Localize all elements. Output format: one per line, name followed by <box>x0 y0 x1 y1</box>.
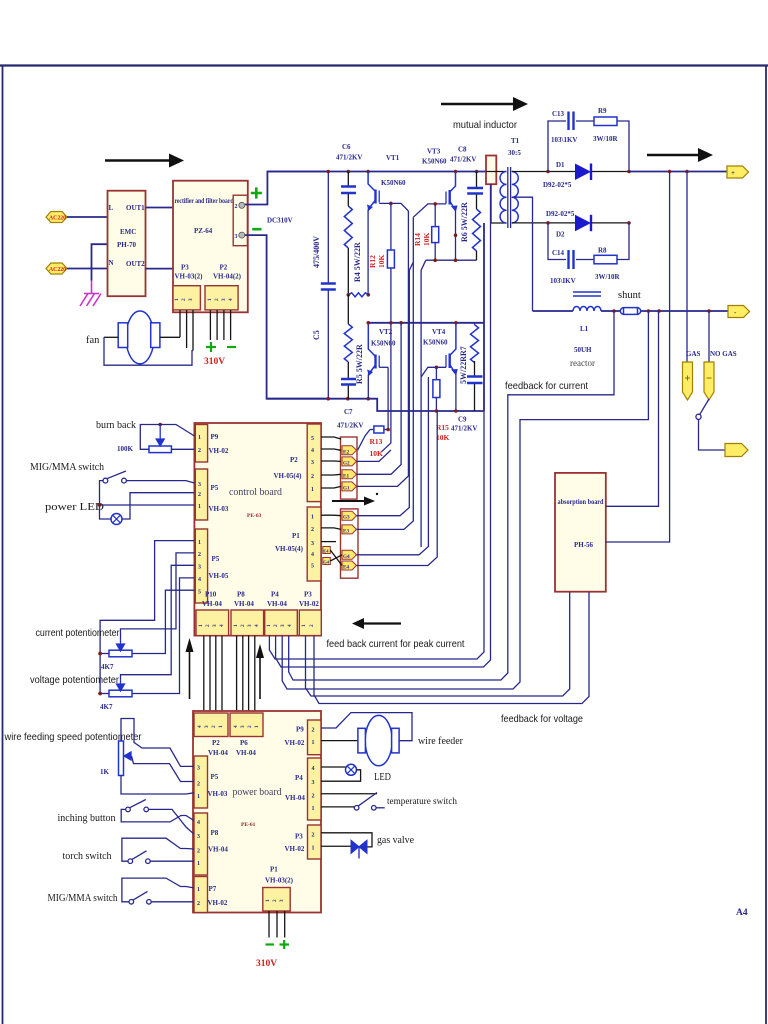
svg-text:C9: C9 <box>458 416 467 424</box>
svg-text:rectifier and filter board: rectifier and filter board <box>175 197 234 205</box>
wire burn back top <box>140 425 194 450</box>
svg-text:1: 1 <box>312 806 315 812</box>
wire P5b pin1 to pots rail <box>100 541 194 694</box>
svg-text:3: 3 <box>212 624 218 627</box>
node dots on rails <box>327 170 331 174</box>
svg-text:VT1: VT1 <box>386 154 400 162</box>
connector P5 VH-05 of control board <box>195 529 207 603</box>
svg-text:P3: P3 <box>181 264 189 272</box>
svg-text:E4: E4 <box>323 549 329 554</box>
arrow gate drive <box>332 497 375 506</box>
pin circle P1-2 <box>239 202 245 208</box>
svg-text:R8: R8 <box>598 247 607 255</box>
svg-text:1: 1 <box>312 740 315 746</box>
transistor VT1 <box>367 172 409 212</box>
capacitor C8 <box>476 172 478 210</box>
svg-text:4: 4 <box>197 820 200 826</box>
wire G4 riser <box>357 377 429 555</box>
wire feedback from minus sense <box>282 311 648 689</box>
pin circle P1-3 <box>239 232 245 238</box>
svg-text:4: 4 <box>254 624 260 627</box>
svg-text:1: 1 <box>254 725 260 728</box>
svg-text:VH-04: VH-04 <box>285 794 305 802</box>
control board PE-63 <box>194 423 321 636</box>
svg-text:GAS: GAS <box>686 350 701 358</box>
absorption board PH-56 <box>555 473 606 592</box>
svg-text:VH-04: VH-04 <box>236 749 256 757</box>
transistor VT4 <box>421 323 458 377</box>
svg-text:P9: P9 <box>211 433 219 441</box>
ground chassis symbol <box>80 281 101 307</box>
fan motor symbol <box>118 311 160 364</box>
LED indicator symbol <box>100 505 112 519</box>
flag gas out <box>725 444 748 457</box>
wire P5b pin5 to current pot right <box>132 590 194 653</box>
svg-text:475/400V: 475/400V <box>312 236 321 268</box>
wire earth branch <box>92 244 108 280</box>
wire to GAS flag <box>686 172 688 363</box>
svg-text:VH-04: VH-04 <box>267 600 287 608</box>
frame right border <box>765 66 767 1024</box>
transistor VT2 <box>367 323 388 376</box>
connector P3 of power board <box>308 825 322 859</box>
wire E3 riser <box>357 217 414 529</box>
svg-text:1: 1 <box>207 298 213 301</box>
svg-text:3W/10R: 3W/10R <box>593 135 618 143</box>
svg-text:D92-02*5: D92-02*5 <box>546 210 575 218</box>
svg-text:P10: P10 <box>205 591 217 599</box>
svg-text:P4: P4 <box>295 774 303 782</box>
svg-text:PE-63: PE-63 <box>247 513 262 519</box>
wire burn back right <box>171 448 194 450</box>
wire secondary top tap <box>512 171 548 173</box>
svg-text:+: + <box>731 169 735 177</box>
svg-text:2: 2 <box>312 833 315 839</box>
svg-text:3: 3 <box>311 460 314 466</box>
svg-text:VH-04(2): VH-04(2) <box>213 273 242 281</box>
svg-text:VH-02: VH-02 <box>285 845 305 853</box>
flags group G3 E3 G4 E4 <box>341 509 359 578</box>
wire G1 riser <box>357 211 409 486</box>
svg-text:2: 2 <box>272 899 278 902</box>
wires P10 pins down to power board <box>204 636 222 713</box>
wire secondary bottom tap <box>512 222 548 224</box>
wire feeder motor loop top <box>321 713 412 741</box>
svg-text:EMC: EMC <box>120 228 136 236</box>
svg-text:feed back current for peak cur: feed back current for peak current <box>327 638 465 650</box>
svg-text:VH-04: VH-04 <box>202 600 222 608</box>
svg-text:C8: C8 <box>458 146 467 154</box>
frame left border <box>2 66 4 1024</box>
bottom connector P3 of control board <box>299 610 321 636</box>
svg-text:103\IKV: 103\IKV <box>550 277 576 285</box>
svg-text:torch switch: torch switch <box>63 851 113 862</box>
main bottom rail <box>267 399 484 411</box>
arrow feed back current <box>352 618 401 629</box>
potentiometer burn back <box>149 446 171 453</box>
svg-text:1: 1 <box>197 887 200 893</box>
svg-text:4: 4 <box>287 624 293 627</box>
flag AC220 no.2 <box>46 263 67 274</box>
plus sign DC310V <box>251 187 262 198</box>
arrow top-right output flow <box>647 148 713 162</box>
main top rail <box>267 171 486 173</box>
svg-text:2: 2 <box>240 624 246 627</box>
svg-text:VT4: VT4 <box>432 328 446 336</box>
svg-text:N: N <box>109 259 114 267</box>
connector P5 of power board <box>194 756 208 808</box>
svg-text:shunt: shunt <box>618 290 641 301</box>
svg-text:2: 2 <box>198 552 201 558</box>
arrow top-left input flow <box>105 154 184 168</box>
negative output line <box>533 310 729 312</box>
wire fan left lead <box>104 336 118 338</box>
svg-text:temperature switch: temperature switch <box>387 797 457 807</box>
wire power LED row <box>100 504 195 506</box>
svg-text:3: 3 <box>312 780 315 786</box>
wire VT2 gate drop <box>387 367 389 429</box>
wire P5b pin3 to voltage wiper <box>121 565 195 679</box>
wire E2 link through R13 <box>358 430 371 451</box>
temperature switch <box>321 793 377 795</box>
EMC filter block PH-70 <box>108 191 146 297</box>
flag output minus <box>728 306 750 318</box>
svg-text:D2: D2 <box>556 231 565 239</box>
svg-text:R14: R14 <box>413 233 422 246</box>
plus sign 310V bottom <box>280 940 290 949</box>
svg-text:5: 5 <box>311 564 314 570</box>
svg-text:VH-03: VH-03 <box>208 790 228 798</box>
svg-text:2: 2 <box>205 624 211 627</box>
frame top border <box>0 64 768 66</box>
reactor L1 <box>573 307 601 312</box>
svg-text:C13: C13 <box>552 110 565 118</box>
resistor R13 <box>370 429 388 431</box>
connector P4 of power board <box>308 758 322 820</box>
svg-text:3: 3 <box>197 766 200 772</box>
svg-text:C7: C7 <box>344 408 353 416</box>
svg-text:VT3: VT3 <box>427 148 441 156</box>
svg-text:R6 5W/22R: R6 5W/22R <box>460 202 469 242</box>
wire fan bottom loop <box>104 337 193 365</box>
wire absorption to minus line <box>606 311 659 506</box>
wires P2 pins down <box>210 310 230 340</box>
svg-text:10K: 10K <box>422 233 431 247</box>
wire G2 riser <box>357 450 391 461</box>
svg-text:310V: 310V <box>204 357 225 367</box>
svg-text:1: 1 <box>198 624 204 627</box>
svg-text:3: 3 <box>235 234 238 240</box>
svg-text:4K7: 4K7 <box>100 703 113 711</box>
svg-text:3: 3 <box>221 298 227 301</box>
svg-text:3W/10R: 3W/10R <box>595 273 620 281</box>
svg-text:VH-04: VH-04 <box>208 749 228 757</box>
wire pot top to P5-3 <box>121 719 194 767</box>
svg-text:VH-04: VH-04 <box>208 846 228 854</box>
connector P5 VH-03 of control board <box>195 469 207 520</box>
svg-text:2: 2 <box>273 624 279 627</box>
wire DC minus drop <box>245 235 328 399</box>
svg-text:3: 3 <box>198 565 201 571</box>
wire VT4 emitter <box>455 374 457 411</box>
wires P8 pins down to power board <box>237 636 255 713</box>
svg-text:4: 4 <box>311 448 314 454</box>
svg-text:4K7: 4K7 <box>101 663 114 671</box>
wire R4 to node <box>347 248 349 295</box>
svg-text:gas valve: gas valve <box>377 835 414 846</box>
svg-text:wire feeder: wire feeder <box>418 736 463 747</box>
wire DC plus riser <box>245 172 328 205</box>
svg-text:2: 2 <box>197 901 200 907</box>
svg-text:P2: P2 <box>212 739 220 747</box>
resistor R7 <box>474 323 476 325</box>
svg-text:MIG/MMA switch: MIG/MMA switch <box>48 893 119 904</box>
connector P1 of control board <box>307 507 321 581</box>
gas valve wires <box>321 833 372 847</box>
gas valve symbol <box>351 840 367 858</box>
svg-text:G4: G4 <box>323 560 330 565</box>
mid rail left leg <box>368 322 483 324</box>
svg-text:P7: P7 <box>209 885 217 893</box>
inter-node squiggle <box>348 293 368 297</box>
svg-text:5: 5 <box>311 436 314 442</box>
svg-text:100K: 100K <box>117 445 134 453</box>
svg-text:LED: LED <box>374 771 391 783</box>
svg-text:DC310V: DC310V <box>267 217 293 225</box>
bottom connector P8 of control board <box>231 610 264 636</box>
wire G3 riser <box>357 262 414 516</box>
svg-text:T1: T1 <box>511 137 520 145</box>
capacitor C7 <box>347 362 349 399</box>
svg-text:3: 3 <box>198 482 201 488</box>
svg-text:10K: 10K <box>436 433 450 442</box>
svg-text:R12: R12 <box>368 255 377 268</box>
wires P2 pins to flags <box>321 437 341 439</box>
svg-text:3: 3 <box>279 899 285 902</box>
svg-text:1: 1 <box>174 298 180 301</box>
tag E4 at P1 pin4 <box>323 547 331 554</box>
wire P5b pin2 to current wiper <box>121 553 195 639</box>
tag G4 at P1 pin5 <box>323 558 331 565</box>
connector block P2 of rectifier board <box>205 286 238 310</box>
wire E1 riser <box>357 323 402 475</box>
minus sign 310V <box>227 346 236 348</box>
switch torch <box>128 859 133 864</box>
svg-text:L1: L1 <box>580 325 589 333</box>
crossover wires to G4 E4 flags <box>330 550 342 566</box>
wire absorption to plus line <box>606 172 670 543</box>
svg-text:10K: 10K <box>377 255 386 269</box>
svg-text:VH-05: VH-05 <box>209 572 229 580</box>
svg-text:2: 2 <box>309 624 315 627</box>
svg-text:absorption board: absorption board <box>558 498 604 506</box>
svg-text:R4 5W/22R: R4 5W/22R <box>353 242 362 282</box>
connector P7 of power board <box>194 877 208 913</box>
svg-text:G4: G4 <box>343 554 350 560</box>
svg-text:310V: 310V <box>256 959 277 969</box>
svg-text:control board: control board <box>229 486 282 498</box>
bottom connector P4 of control board <box>265 610 298 636</box>
wire LED row <box>321 766 346 768</box>
svg-text:E1: E1 <box>343 473 349 479</box>
wires P3 pins down <box>180 310 193 351</box>
svg-text:C5: C5 <box>312 330 321 340</box>
wire E4 riser <box>357 411 438 566</box>
svg-text:4: 4 <box>219 624 225 627</box>
svg-text:VH-02: VH-02 <box>209 447 229 455</box>
svg-text:471/2KV: 471/2KV <box>451 425 477 433</box>
svg-text:P1: P1 <box>292 532 300 540</box>
wire EMC OUT1 to rectifier board <box>146 207 174 209</box>
svg-text:PZ-64: PZ-64 <box>194 227 213 235</box>
flag GAS <box>683 362 693 400</box>
svg-text:4: 4 <box>198 577 201 583</box>
svg-text:P5: P5 <box>211 773 219 781</box>
svg-text:D92-02*5: D92-02*5 <box>543 181 572 189</box>
svg-text:2: 2 <box>311 527 314 533</box>
svg-text:2: 2 <box>198 448 201 454</box>
svg-text:inching button: inching button <box>58 813 117 824</box>
switch MIG/MMA upper <box>103 478 108 483</box>
svg-text:AC220: AC220 <box>49 215 66 221</box>
resistor R5 <box>347 295 349 324</box>
wire fan right lead <box>160 336 180 338</box>
arrow above mutual inductor <box>441 97 528 111</box>
svg-text:R13: R13 <box>370 437 383 446</box>
svg-text:30:5: 30:5 <box>508 149 521 157</box>
svg-text:P6: P6 <box>240 739 248 747</box>
transistor VT3 <box>413 172 457 218</box>
resistor R15 <box>435 367 437 379</box>
svg-text:C14: C14 <box>552 249 565 257</box>
svg-text:VH-02: VH-02 <box>299 600 319 608</box>
svg-text:feedback for current: feedback for current <box>505 380 588 392</box>
mid rail right leg upper <box>421 260 476 377</box>
flag NO GAS <box>704 362 714 400</box>
minus sign 310V bottom <box>266 943 275 945</box>
svg-text:2: 2 <box>198 492 201 498</box>
svg-text:VH-02: VH-02 <box>208 899 228 907</box>
wire pot bottom to P5-1 <box>121 776 194 795</box>
capacitor C5 <box>327 172 329 399</box>
svg-text:3: 3 <box>247 624 253 627</box>
rectifier and filter board PZ-64 <box>173 181 248 313</box>
T1 primary winding <box>486 171 507 173</box>
svg-text:3: 3 <box>188 298 194 301</box>
svg-text:reactor: reactor <box>570 358 595 368</box>
svg-text:E4: E4 <box>343 565 349 571</box>
svg-text:burn back: burn back <box>96 420 137 431</box>
svg-text:1: 1 <box>312 846 315 852</box>
svg-text:P8: P8 <box>211 829 219 837</box>
svg-text:PE-61: PE-61 <box>241 822 256 828</box>
wire AC220 no.1 to EMC L <box>67 216 108 218</box>
wire absorption feedback 2 <box>314 592 589 704</box>
svg-text:4: 4 <box>228 298 234 301</box>
snubber C13 R9 <box>548 121 566 172</box>
svg-text:2: 2 <box>311 474 314 480</box>
potentiometer voltage <box>109 690 132 697</box>
T1 core <box>508 167 511 228</box>
svg-text:OUT2: OUT2 <box>126 260 145 268</box>
svg-text:PH-56: PH-56 <box>574 541 594 549</box>
reactor L1 core <box>573 292 601 296</box>
svg-text:D1: D1 <box>556 161 565 169</box>
wire absorption feedback 1 <box>306 592 570 696</box>
wire to NO GAS flag <box>708 311 710 362</box>
svg-text:4: 4 <box>312 766 315 772</box>
svg-text:2: 2 <box>211 725 217 728</box>
connector block P3 of rectifier board <box>173 286 200 310</box>
svg-text:feedback for voltage: feedback for voltage <box>501 713 583 725</box>
svg-text:2: 2 <box>312 794 315 800</box>
svg-text:fan: fan <box>86 335 100 346</box>
svg-text:5W/22RR7: 5W/22RR7 <box>459 346 468 384</box>
svg-text:4: 4 <box>311 552 314 558</box>
svg-text:3: 3 <box>197 834 200 840</box>
svg-text:A4: A4 <box>736 908 748 918</box>
switch MIG/MMA lower <box>129 900 134 905</box>
svg-text:2: 2 <box>214 298 220 301</box>
resistor R6 <box>473 209 481 251</box>
svg-text:1: 1 <box>198 435 201 441</box>
svg-text:power LED: power LED <box>45 502 104 513</box>
svg-text:P5: P5 <box>212 555 220 563</box>
svg-text:1: 1 <box>265 899 271 902</box>
connector P8 of power board <box>194 813 208 875</box>
wire AC220 no.2 to EMC N <box>67 268 108 270</box>
svg-text:4: 4 <box>233 725 239 728</box>
wire current feedback from shunt <box>289 311 614 680</box>
connector P2 of power board <box>194 713 228 737</box>
svg-text:L: L <box>109 204 114 212</box>
svg-text:471/2KV: 471/2KV <box>337 422 363 430</box>
svg-text:AC220: AC220 <box>49 267 66 273</box>
wire VT4 gate riser <box>420 377 422 547</box>
wire pot wiper to P5-2 <box>132 756 195 782</box>
wires P1 pins down <box>269 911 285 938</box>
svg-text:471/2KV: 471/2KV <box>450 156 476 164</box>
capacitor C6 <box>347 172 349 207</box>
svg-text:VH-03(2): VH-03(2) <box>175 273 204 281</box>
svg-text:1: 1 <box>311 487 314 493</box>
svg-text:P4: P4 <box>271 591 279 599</box>
svg-text:K50N60: K50N60 <box>422 158 447 166</box>
svg-text:1: 1 <box>311 515 314 521</box>
current transformer sense box <box>483 223 485 411</box>
svg-text:1: 1 <box>197 794 200 800</box>
potentiometer current <box>109 650 132 657</box>
svg-text:P9: P9 <box>296 726 304 734</box>
svg-text:P1: P1 <box>270 866 278 874</box>
svg-text:10K: 10K <box>370 449 384 458</box>
potentiometer wire speed <box>119 741 124 776</box>
resistor R14 <box>434 204 436 227</box>
svg-text:471/2KV: 471/2KV <box>336 154 362 162</box>
gas select switch <box>700 399 709 414</box>
svg-text:3: 3 <box>204 725 210 728</box>
bottom connector P10 of control board <box>196 610 229 636</box>
svg-text:1: 1 <box>233 624 239 627</box>
svg-text:P5: P5 <box>211 484 219 492</box>
svg-text:PH-70: PH-70 <box>117 241 137 249</box>
wire EMC OUT2 to rectifier board <box>146 268 174 270</box>
svg-text:VH-05(4): VH-05(4) <box>274 472 303 480</box>
svg-text:K50N60: K50N60 <box>423 339 448 347</box>
svg-text:2: 2 <box>197 782 200 788</box>
switch inching button <box>126 807 131 812</box>
svg-text:VH-05(4): VH-05(4) <box>275 545 304 553</box>
